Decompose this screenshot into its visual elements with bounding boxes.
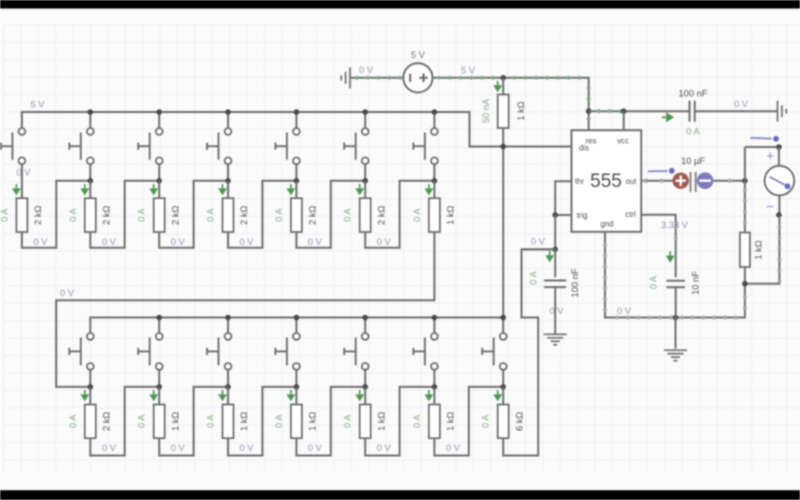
junction out node: [742, 178, 748, 184]
svg-text:0 V: 0 V: [377, 443, 392, 453]
wire R10 bottom loop to next tap: [228, 387, 296, 456]
svg-text:1 kΩ: 1 kΩ: [239, 412, 249, 431]
current arrow for R6: [357, 184, 363, 194]
svg-text:0 V: 0 V: [102, 443, 117, 453]
junction on top rail: [225, 109, 231, 115]
wire trig to C2: [554, 215, 556, 249]
voltmeter M1: [765, 166, 795, 196]
wire C2 to ground: [554, 287, 556, 334]
wire button SW9 to tap: [158, 370, 160, 387]
wire bottom button rail: [90, 318, 503, 333]
push button SW5: [275, 128, 299, 164]
svg-text:1 kΩ: 1 kΩ: [754, 240, 764, 259]
wire source to supply corner: [433, 78, 589, 111]
svg-text:2 kΩ: 2 kΩ: [170, 205, 180, 224]
svg-text:0 A: 0 A: [0, 208, 9, 222]
wire tap to resistor R12: [364, 387, 366, 405]
resistor R1: [16, 198, 27, 232]
wire R5 bottom loop to next tap: [296, 181, 365, 248]
current arrow for R13: [426, 390, 432, 400]
current arrow C3: [667, 251, 673, 261]
svg-text:2 kΩ: 2 kΩ: [33, 205, 43, 224]
wire R8 bottom loop to next tap: [90, 387, 159, 456]
letterbox top bar: [0, 0, 800, 9]
svg-text:0 A: 0 A: [481, 414, 491, 428]
wire R16 bottom: [744, 267, 746, 284]
current dots: [743, 188, 747, 192]
wire trig pin: [555, 214, 571, 216]
junction on bottom rail: [156, 315, 162, 321]
wire rail stub: [433, 112, 435, 128]
wire rail stub: [89, 112, 91, 128]
svg-text:2 kΩ: 2 kΩ: [239, 205, 249, 224]
svg-text:0 A: 0 A: [137, 208, 147, 222]
current dots: [355, 76, 359, 80]
svg-text:0 A: 0 A: [68, 414, 78, 428]
svg-text:100 nF: 100 nF: [679, 89, 708, 99]
wire thr pin: [555, 181, 571, 215]
svg-text:ctrl: ctrl: [625, 210, 636, 219]
svg-text:vcc: vcc: [617, 136, 629, 145]
svg-text:0 V: 0 V: [60, 288, 75, 298]
svg-text:10 nF: 10 nF: [691, 271, 701, 295]
wire rail stub: [364, 318, 366, 333]
current dots: [597, 109, 601, 113]
svg-text:−: −: [766, 199, 774, 214]
svg-text:2 kΩ: 2 kΩ: [308, 205, 318, 224]
wire vcc stub: [623, 111, 625, 130]
junction supply / R15 top: [500, 75, 506, 81]
svg-text:1 kΩ: 1 kΩ: [446, 205, 456, 224]
wire C1 to ground: [695, 110, 777, 112]
wire button SW14 to tap: [502, 370, 504, 387]
junction on bottom rail: [362, 315, 368, 321]
current arrow for R14: [495, 390, 501, 400]
junction on top rail: [362, 109, 368, 115]
svg-text:0 A: 0 A: [206, 414, 216, 428]
switch S1 lever: [648, 168, 675, 174]
svg-text:1 kΩ: 1 kΩ: [308, 412, 318, 431]
capacitor C3 10 nF: [666, 281, 685, 288]
svg-text:2 kΩ: 2 kΩ: [102, 412, 112, 431]
resistor R2: [85, 198, 96, 232]
wire meter top lead: [778, 147, 780, 166]
wire button SW4 to tap: [227, 164, 229, 180]
junction tap node T6: [362, 178, 368, 184]
svg-text:0 A: 0 A: [274, 414, 284, 428]
svg-text:1 kΩ: 1 kΩ: [170, 412, 180, 431]
push button SW6: [344, 128, 368, 164]
wire R6 bottom loop to next tap: [365, 181, 434, 248]
resistor R13: [429, 405, 440, 439]
wire R3 bottom loop to next tap: [159, 181, 228, 248]
svg-text:555: 555: [590, 171, 622, 192]
current arrow for R7: [426, 184, 432, 194]
current arrow for R9: [151, 390, 157, 400]
wire ctrl pin to C3: [641, 215, 676, 251]
wire button SW1 to tap: [21, 164, 23, 180]
push button SW3: [138, 128, 162, 164]
svg-text:dis: dis: [579, 144, 589, 153]
wire supply to resistor R15: [502, 78, 504, 95]
capacitor C1 100 nF plates: [690, 101, 695, 122]
push button SW12: [344, 333, 368, 370]
wire tap to resistor R7: [433, 181, 435, 198]
svg-text:0 V: 0 V: [33, 237, 48, 247]
svg-text:0 V: 0 V: [240, 443, 255, 453]
resistor R9: [154, 405, 165, 439]
svg-text:0 V: 0 V: [550, 306, 565, 316]
resistor R12: [360, 405, 371, 439]
svg-text:50 nA: 50 nA: [481, 98, 491, 123]
wire to meter top: [745, 146, 779, 148]
wire button SW3 to tap: [158, 164, 160, 180]
svg-text:0 V: 0 V: [17, 168, 32, 178]
current arrow for R12: [357, 390, 363, 400]
resistor R11: [291, 405, 302, 439]
junction tap node T10: [225, 384, 231, 390]
svg-text:0 V: 0 V: [240, 237, 255, 247]
wire button SW11 to tap: [295, 370, 297, 387]
junction on bottom rail: [225, 315, 231, 321]
svg-text:0 A: 0 A: [206, 208, 216, 222]
wire R2 bottom loop to next tap: [90, 181, 159, 248]
switch S2 lever: [750, 136, 779, 142]
wire gnd pin to ground rail: [605, 232, 745, 318]
junction on bottom rail: [294, 315, 300, 321]
svg-text:0 A: 0 A: [412, 414, 422, 428]
resistor R8: [85, 405, 96, 439]
svg-text:0 A: 0 A: [529, 270, 539, 284]
wire C3 top lead: [675, 251, 677, 278]
svg-text:5 V: 5 V: [31, 100, 46, 110]
junction tap node T8: [88, 384, 94, 390]
junction tap node T12: [362, 384, 368, 390]
wire button SW12 to tap: [364, 370, 366, 387]
svg-text:0 A: 0 A: [649, 275, 659, 289]
svg-text:gnd: gnd: [600, 220, 613, 229]
svg-text:0 V: 0 V: [171, 237, 186, 247]
wire tap to resistor R8: [89, 387, 91, 405]
current dots: [778, 225, 782, 229]
capacitor C4 10 uF electrolytic: [673, 172, 714, 192]
push button SW7: [413, 128, 437, 164]
svg-text:0 A: 0 A: [274, 208, 284, 222]
junction bottom rail / dis: [500, 315, 506, 321]
wire ground stub: [675, 318, 677, 349]
wire rail stub: [158, 318, 160, 333]
wire out pin: [641, 180, 672, 182]
wire button SW10 to tap: [227, 370, 229, 387]
wire tap to resistor R5: [295, 181, 297, 198]
wire tap to resistor R1: [21, 181, 23, 198]
wire supply to vcc and 100nF cap C1: [589, 110, 689, 112]
svg-text:5 V: 5 V: [461, 66, 476, 76]
ground G3 below C2: [544, 334, 567, 345]
svg-text:0 A: 0 A: [412, 208, 422, 222]
resistor R7: [429, 198, 440, 232]
svg-text:thr: thr: [575, 177, 585, 186]
junction tap node T9: [156, 384, 162, 390]
current arrow C2: [547, 251, 553, 261]
junction meter bottom: [776, 212, 782, 218]
wire tap to resistor R11: [295, 387, 297, 405]
capacitor C2 100 nF: [544, 281, 566, 288]
svg-text:6 kΩ: 6 kΩ: [514, 412, 524, 431]
current dots: [587, 117, 591, 121]
voltage source V1 5V: [403, 63, 432, 92]
junction trig node: [552, 212, 558, 218]
resistor R3: [154, 198, 165, 232]
junction tap node T14: [500, 384, 506, 390]
wire ground to source: [350, 77, 403, 79]
wire rail stub: [433, 318, 435, 333]
svg-text:0 V: 0 V: [531, 236, 546, 246]
wire tap to resistor R14: [502, 387, 504, 405]
svg-text:2 kΩ: 2 kΩ: [102, 205, 112, 224]
wire C2 top lead: [554, 249, 556, 277]
junction tap node T13: [432, 384, 438, 390]
svg-text:trig: trig: [577, 211, 588, 220]
wire button SW6 to tap: [364, 164, 366, 180]
junction on top rail: [294, 109, 300, 115]
wire R4 bottom loop to next tap: [228, 181, 296, 248]
wire button SW13 to tap: [433, 370, 435, 387]
svg-text:out: out: [626, 177, 638, 186]
current arrow for R8: [82, 390, 88, 400]
op-amp/timer chip U1 555 body: [572, 130, 642, 232]
resistor R16 1k load: [740, 233, 750, 268]
wire dis node to bottom rail: [502, 147, 504, 318]
current dots: [603, 243, 607, 247]
wire tap to resistor R13: [433, 387, 435, 405]
current arrow for R10: [220, 390, 226, 400]
push button SW2: [69, 128, 93, 164]
wire tap to resistor R2: [89, 181, 91, 198]
svg-text:0 V: 0 V: [171, 443, 186, 453]
svg-text:0 V: 0 V: [308, 443, 323, 453]
svg-text:0 V: 0 V: [617, 306, 632, 316]
ground G1 at 5V source: [341, 67, 350, 88]
svg-text:0 A: 0 A: [343, 208, 353, 222]
svg-text:0 A: 0 A: [68, 208, 78, 222]
push button SW1: [1, 128, 25, 164]
wire button SW7 to tap: [433, 164, 435, 180]
junction tap node T5: [294, 178, 300, 184]
junction dis node: [500, 144, 506, 150]
wire ladder link top row to bottom row: [56, 232, 434, 387]
wire C2 bypass to ladder end: [522, 249, 556, 317]
current arrow for R1: [14, 184, 20, 194]
wire rail stub: [502, 318, 504, 333]
out current arrow: [642, 178, 647, 184]
junction C2 top: [552, 247, 558, 253]
wire button SW2 to tap: [89, 164, 91, 180]
junction on top rail: [88, 109, 94, 115]
current arrow for R11: [288, 390, 294, 400]
current dots: [437, 76, 441, 80]
svg-text:0 A: 0 A: [686, 127, 700, 137]
svg-text:1 kΩ: 1 kΩ: [446, 412, 456, 431]
svg-text:100 nF: 100 nF: [570, 268, 580, 297]
push button SW8: [69, 333, 93, 370]
svg-text:10 µF: 10 µF: [681, 156, 705, 166]
junction on bottom rail: [432, 315, 438, 321]
wire supply corner to res pin: [588, 111, 590, 130]
wire C3 to ground rail: [675, 287, 677, 317]
current dot: [728, 179, 732, 183]
push button SW9: [138, 333, 162, 370]
svg-text:0 V: 0 V: [102, 237, 117, 247]
svg-text:0 A: 0 A: [137, 414, 147, 428]
svg-text:0 V: 0 V: [359, 65, 374, 75]
wire button SW5 to tap: [295, 164, 297, 180]
current arrow for R4: [220, 184, 226, 194]
resistor R5: [291, 198, 302, 232]
svg-text:0 A: 0 A: [343, 414, 353, 428]
wire out node vertical: [744, 147, 746, 233]
letterbox bottom bar: [0, 490, 800, 500]
push button SW4: [207, 128, 231, 164]
svg-text:0 V: 0 V: [377, 237, 392, 247]
junction tap node T11: [294, 384, 300, 390]
wire rail stub: [364, 112, 366, 128]
wire R12 bottom loop to next tap: [365, 387, 434, 456]
wire R11 bottom loop to next tap: [296, 387, 365, 456]
wire rail stub: [227, 318, 229, 333]
junction ground tap: [673, 315, 679, 321]
wire R9 bottom loop to next tap: [159, 387, 228, 456]
push button SW13: [413, 333, 437, 370]
push button SW14: [482, 333, 506, 370]
svg-text:0 V: 0 V: [734, 99, 749, 109]
resistor R10: [223, 405, 234, 439]
current arrow for R2: [82, 184, 88, 194]
current arrow for R15: [495, 81, 501, 91]
current arrow for R3: [151, 184, 157, 194]
junction tap node T3: [156, 178, 162, 184]
junction vcc stub: [621, 108, 627, 114]
svg-text:+: +: [767, 148, 775, 163]
wire R15 to dis junction: [502, 128, 504, 147]
resistor R15 1k to dis: [498, 95, 509, 129]
wire button SW8 to tap: [89, 370, 91, 387]
wire meter to ground rail: [745, 215, 780, 284]
junction tap node T2: [88, 178, 94, 184]
push button SW11: [275, 333, 299, 370]
junction tap node T4: [225, 178, 231, 184]
wire tap to resistor R4: [227, 181, 229, 198]
wire C4 to out junction: [713, 180, 745, 182]
wire tap to resistor R6: [364, 181, 366, 198]
wire rail stub: [295, 318, 297, 333]
resistor R14: [498, 405, 509, 439]
push button SW10: [207, 333, 231, 370]
ground G2 right of C1: [778, 101, 787, 122]
svg-text:1 kΩ: 1 kΩ: [516, 101, 526, 120]
svg-text:3.33 V: 3.33 V: [661, 220, 689, 230]
junction tap node T7: [432, 178, 438, 184]
svg-text:0 V: 0 V: [446, 443, 461, 453]
current dots: [674, 225, 678, 229]
wire tap to resistor R3: [158, 181, 160, 198]
current dot: [660, 179, 664, 183]
wire rail stub: [158, 112, 160, 128]
junction on top rail: [432, 109, 438, 115]
svg-text:1 kΩ: 1 kΩ: [376, 412, 386, 431]
svg-text:2 kΩ: 2 kΩ: [376, 205, 386, 224]
wire R14 bottom to trig node: [503, 249, 555, 455]
current arrow C1: [662, 114, 673, 121]
ground G4 main: [664, 350, 687, 361]
junction meter top: [776, 144, 782, 150]
resistor R4: [223, 198, 234, 232]
resistor R6: [360, 198, 371, 232]
junction res stub: [586, 108, 592, 114]
svg-text:5 V: 5 V: [411, 50, 426, 60]
current arrow for R5: [288, 184, 294, 194]
wire rail stub: [295, 112, 297, 128]
svg-text:0 V: 0 V: [308, 237, 323, 247]
wire R13 bottom loop to next tap: [434, 387, 503, 456]
node 5V top rail wire: [22, 112, 572, 147]
wire tap to resistor R10: [227, 387, 229, 405]
junction R16 / meter: [742, 281, 748, 287]
wire R1 bottom loop to next tap: [22, 181, 90, 248]
wire meter bottom lead: [778, 195, 780, 215]
wire tap to resistor R9: [158, 387, 160, 405]
wire rail stub: [227, 112, 229, 128]
junction on top rail: [156, 109, 162, 115]
